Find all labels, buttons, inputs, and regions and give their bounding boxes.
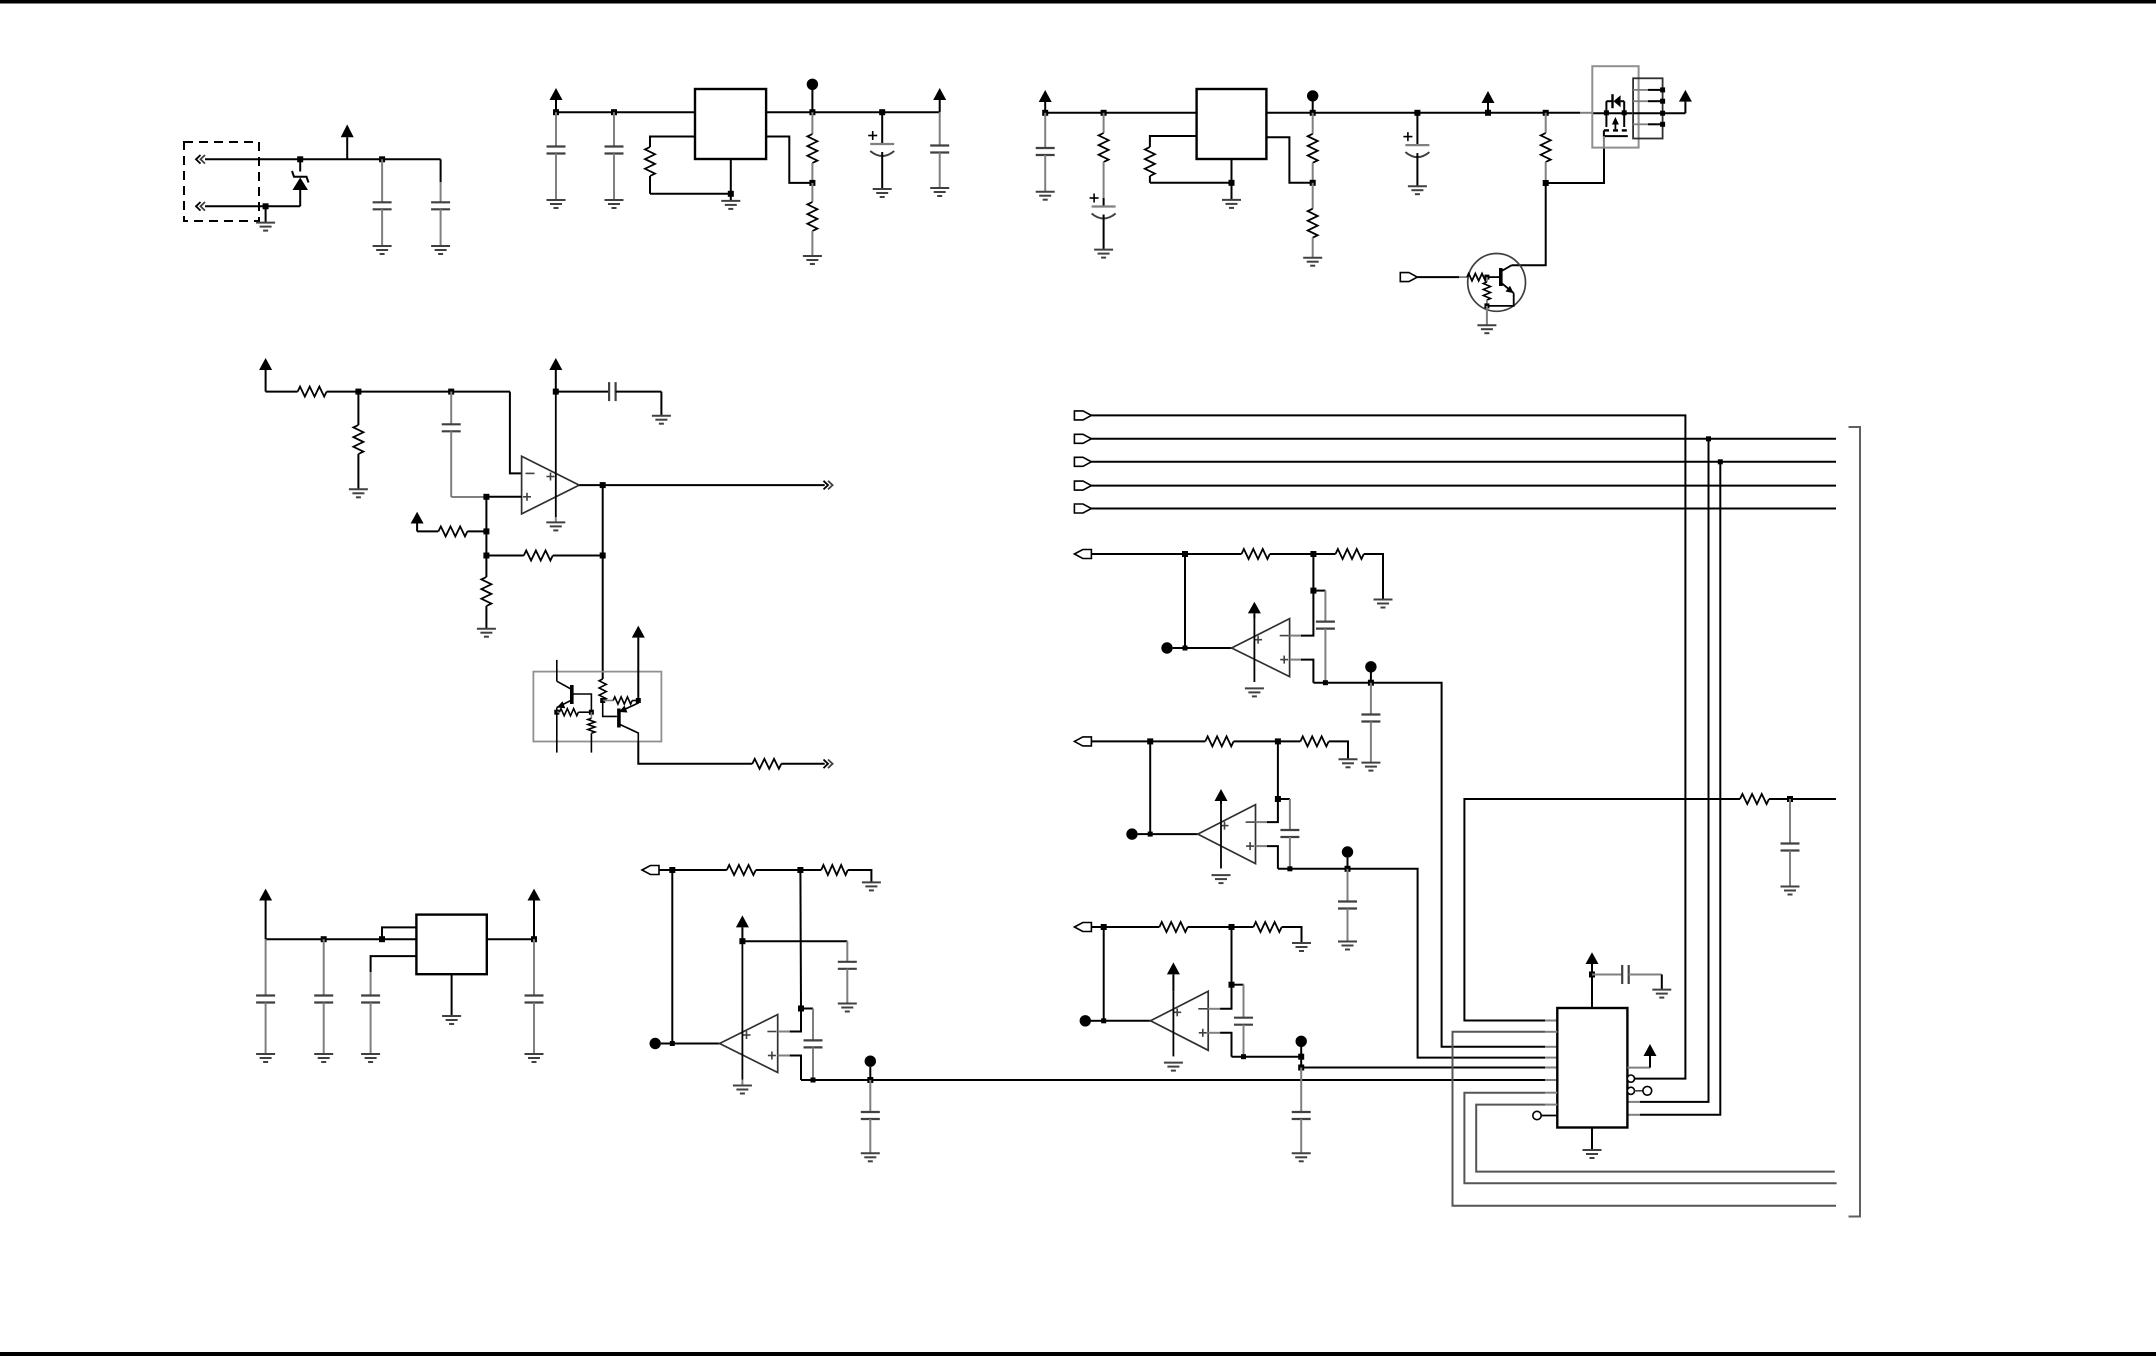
resistor R10 base-emitter	[1483, 277, 1490, 306]
wire U2 fb pin	[1266, 137, 1312, 183]
node dot N6	[1365, 661, 1376, 683]
power arrow P5	[1482, 91, 1495, 113]
junction	[1414, 110, 1420, 116]
regulator U4	[416, 915, 486, 975]
mosfet Q1 gate	[1604, 130, 1628, 147]
resistor R6	[1308, 113, 1318, 183]
wire	[1234, 740, 1278, 742]
ground	[1282, 927, 1311, 951]
pin circle U9 p9	[1533, 1111, 1558, 1119]
mosfet Q1 box	[1592, 66, 1638, 147]
ground U2	[1222, 159, 1241, 208]
wire pin8 loop	[1476, 1105, 1835, 1172]
resistor R12 to gnd	[353, 392, 363, 490]
junction	[600, 482, 606, 488]
capacitor C14	[361, 972, 380, 1054]
connector pin CTRL	[1400, 273, 1459, 282]
capacitor C24	[1292, 1068, 1311, 1154]
ground	[873, 189, 892, 197]
power arrow P4	[1039, 90, 1052, 113]
junction	[554, 710, 559, 715]
wire U5 minus	[778, 1009, 801, 1032]
ic U9 top pin	[1591, 975, 1593, 1009]
mosfet Q1 channel	[1604, 129, 1627, 131]
junction	[589, 710, 594, 715]
wire U8 minus	[1208, 985, 1231, 1009]
junction	[379, 156, 385, 162]
resistor R2	[807, 112, 817, 183]
pin stub Q3	[556, 712, 558, 752]
capacitor C19 feedback	[1313, 591, 1335, 686]
op-amp U7	[1198, 805, 1256, 864]
wire out2	[781, 763, 824, 765]
wire S3 output	[1232, 1056, 1302, 1058]
connector J2 pin row 1	[1633, 87, 1665, 92]
connector pin D2	[1074, 457, 1091, 466]
op-amp U3 minus label	[526, 472, 535, 474]
ground	[1303, 258, 1322, 266]
node dot N1	[807, 79, 818, 113]
op-amp U6 minus label	[1280, 635, 1289, 637]
junction	[1298, 1054, 1304, 1060]
resistor R14 feedback	[486, 551, 602, 561]
junction	[611, 109, 617, 115]
junction	[1182, 551, 1188, 557]
resistor R19	[588, 712, 595, 752]
connector pin S1	[1074, 550, 1185, 559]
capacitor C4	[605, 112, 624, 200]
junction	[483, 553, 489, 559]
wire U7 minus	[1256, 799, 1278, 822]
junction	[1183, 646, 1188, 651]
ground U8	[1164, 1063, 1183, 1071]
capacitor C10	[442, 392, 487, 497]
resistor R4	[1099, 113, 1109, 198]
capacitor C22	[1338, 869, 1357, 942]
power arrow P14	[1248, 602, 1261, 619]
node dot N2	[1307, 90, 1318, 113]
wire S2 input drop	[1149, 741, 1151, 834]
junction	[379, 936, 385, 942]
junction	[553, 109, 559, 115]
bus bracket	[1849, 427, 1861, 1217]
ground U1	[721, 159, 740, 209]
ground	[547, 200, 566, 208]
op-amp U7 supply	[1220, 805, 1222, 869]
op-amp U5 vplus label	[743, 1031, 751, 1039]
junction	[1589, 972, 1595, 978]
capacitor C18	[861, 1080, 880, 1153]
ground	[1036, 192, 1055, 200]
wire	[1270, 553, 1314, 555]
capacitor C11 supply	[556, 382, 662, 401]
resistor R5 feedback	[1145, 136, 1232, 183]
transistor Q2 collector	[1501, 265, 1512, 271]
junction	[739, 938, 745, 944]
op-amp U7 vplus label	[1221, 822, 1229, 830]
junction	[1310, 588, 1316, 594]
junction	[1275, 796, 1281, 802]
wire S3 to IC	[1298, 1057, 1557, 1071]
junction	[1484, 275, 1489, 280]
junction	[1229, 982, 1235, 988]
capacitor C3	[547, 112, 566, 200]
ground	[373, 246, 392, 254]
wire VIN top	[300, 158, 440, 160]
capacitor C26 bypass	[1592, 965, 1662, 984]
ground	[361, 1054, 380, 1062]
wire header to power	[1663, 112, 1686, 114]
ground	[349, 489, 368, 497]
op-amp U5	[720, 1015, 778, 1073]
ground Q2	[1477, 306, 1496, 333]
ground	[1329, 741, 1358, 767]
junction	[1101, 110, 1107, 116]
wire fb up S3	[1231, 927, 1233, 985]
pin circle U9 p10	[1627, 1075, 1634, 1082]
mosfet Q1 source	[1605, 101, 1607, 127]
junction	[798, 1006, 804, 1012]
resistor R18	[557, 709, 592, 716]
capacitor C15	[525, 939, 544, 1054]
connector J1 dashed outline	[184, 142, 259, 221]
junction	[297, 156, 303, 162]
wire pin2 loop	[1453, 1032, 1837, 1206]
node dot N3	[650, 1038, 673, 1049]
transistor Q3a collector stub	[556, 660, 558, 681]
power arrow P16	[1167, 962, 1180, 991]
ground	[1781, 887, 1800, 895]
power arrow P15	[1215, 789, 1228, 805]
op-amp U7 minus label	[1246, 821, 1255, 823]
wire plus input	[486, 496, 521, 498]
power arrow P17	[1586, 952, 1599, 974]
capacitor C13	[314, 939, 333, 1054]
capacitor C5 electrolytic	[868, 112, 894, 189]
connector J2 pin row 3	[1633, 111, 1665, 116]
output port chevron	[824, 481, 833, 490]
resistor R11	[298, 387, 327, 397]
wire	[756, 869, 801, 871]
wire to Q3	[602, 556, 604, 680]
capacitor C20	[1361, 683, 1380, 763]
junction	[1148, 832, 1153, 837]
junction	[1042, 110, 1048, 116]
junction	[797, 867, 803, 873]
junction	[1101, 1018, 1106, 1023]
connector pin AIN	[642, 866, 672, 875]
junction	[1787, 796, 1793, 802]
ground	[256, 206, 275, 230]
resistor R7	[1308, 183, 1318, 258]
power arrow P13	[736, 915, 749, 941]
op-amp U6 vplus label	[1254, 636, 1262, 644]
resistor R26	[1278, 736, 1329, 746]
ground	[1338, 942, 1357, 950]
resistor R25	[1150, 736, 1233, 746]
resistor R16	[599, 679, 606, 701]
junction	[1310, 110, 1316, 116]
op-amp U5 minus label	[767, 1031, 776, 1033]
wire U6 minus	[1290, 591, 1314, 636]
power arrow P7	[259, 358, 272, 392]
wire U1 fb pin	[766, 137, 812, 183]
power arrow P8	[549, 358, 562, 392]
transistor Q2 emitter	[1487, 283, 1514, 306]
connector pin S3	[1074, 923, 1103, 932]
wire	[327, 391, 510, 393]
op-amp U6 supply	[1253, 619, 1255, 682]
junction	[728, 191, 734, 197]
connector J1 pin 2 arrow	[196, 202, 266, 211]
junction	[636, 698, 641, 703]
node dot N8	[1342, 846, 1353, 869]
pin circle U9 p11	[1627, 1086, 1651, 1095]
zener D1	[292, 159, 309, 206]
wire U5 plus	[778, 1056, 801, 1081]
junction	[1275, 738, 1281, 744]
ground	[838, 1004, 857, 1012]
resistor R3	[807, 183, 817, 256]
junction	[1345, 866, 1351, 872]
wire	[1769, 798, 1836, 800]
op-amp U3 supply	[555, 392, 557, 517]
junction	[1229, 180, 1235, 186]
ground	[1408, 186, 1427, 194]
junction	[1485, 110, 1491, 116]
bus wire 1	[1091, 438, 1836, 440]
wire minus input	[510, 392, 522, 474]
capacitor C9 electrolytic	[1403, 113, 1429, 186]
wire reg1 input	[556, 111, 695, 113]
wire bus1 drop	[1627, 439, 1708, 1102]
ground U4	[442, 974, 461, 1024]
junction	[1147, 738, 1153, 744]
wire S2 output	[1278, 869, 1557, 1058]
junction	[1604, 110, 1627, 115]
junction	[1101, 924, 1107, 930]
ground	[256, 1054, 275, 1062]
wire vref	[266, 391, 298, 393]
capacitor C12	[256, 939, 275, 1054]
transistor Q3b collector	[619, 724, 638, 742]
output port chevron	[824, 760, 833, 769]
ground U6	[1245, 688, 1264, 696]
node dot N10	[1296, 1036, 1307, 1057]
ground	[1652, 975, 1671, 998]
wire feedback down	[602, 485, 604, 555]
wire reg1 output	[766, 111, 940, 113]
power arrow P10	[632, 626, 645, 701]
junction	[1543, 180, 1549, 186]
connector J2 pin row 2	[1633, 99, 1665, 104]
mosfet Q1 drain	[1623, 101, 1625, 127]
wire reg3 input	[266, 938, 417, 940]
mosfet Q1 body diode	[1606, 94, 1624, 108]
wire fb up S2	[1277, 741, 1279, 799]
op-amp U8 vplus label	[1173, 1008, 1181, 1016]
ground U7	[1212, 875, 1231, 883]
ground	[803, 256, 822, 264]
ground	[848, 870, 881, 890]
junction	[809, 180, 815, 186]
border bar bottom	[0, 1352, 2156, 1356]
junction	[1368, 680, 1374, 686]
wire Q2 collector	[1512, 183, 1546, 265]
connector pin S2	[1074, 737, 1150, 746]
bus wire 3	[1091, 485, 1836, 487]
wire U3 output	[579, 484, 825, 486]
capacitor C23 feedback	[1232, 985, 1254, 1059]
wire J1 pin2 to zener	[266, 205, 301, 207]
node dot N9	[1080, 1015, 1104, 1026]
power arrow P11	[259, 889, 272, 940]
wire to U8	[1104, 1020, 1151, 1022]
transistor pair Q3 box	[533, 672, 661, 742]
op-amp U8 minus label	[1198, 1008, 1207, 1010]
op-amp U8 supply	[1172, 991, 1174, 1056]
junction	[321, 936, 327, 942]
junction	[669, 867, 675, 873]
ground	[1364, 554, 1393, 608]
junction	[1718, 459, 1723, 464]
junction	[1706, 436, 1711, 441]
transistor Q3a collector	[557, 681, 572, 689]
wire reg2 input	[1045, 112, 1196, 114]
capacitor C17 feedback	[801, 1009, 823, 1083]
connector pin D4	[1074, 504, 1091, 513]
op-amp U6 plus label	[1280, 656, 1288, 664]
node dot N7	[1126, 828, 1150, 839]
wire U6 plus	[1290, 660, 1314, 683]
power arrow P6	[1679, 90, 1692, 113]
junction	[448, 389, 454, 395]
junction	[1229, 924, 1235, 930]
junction	[1484, 303, 1489, 308]
wire bus2 drop	[1627, 462, 1720, 1115]
power arrow P9	[411, 512, 424, 532]
capacitor C25	[1781, 799, 1800, 887]
connector pin D0	[1074, 411, 1091, 420]
mosfet Q1 substrate arrow	[1612, 117, 1619, 129]
capacitor C7	[1036, 113, 1055, 192]
transistor Q2 circle	[1468, 254, 1526, 312]
transistor Q3a base bar	[570, 685, 574, 704]
ground	[477, 629, 496, 637]
wire U4 byp pin	[371, 956, 417, 972]
resistor R1 feedback	[645, 137, 731, 194]
resistor R27	[1104, 922, 1188, 932]
wire U5 output line	[801, 1079, 1557, 1081]
capacitor C8 electrolytic	[1090, 194, 1116, 250]
resistor R17	[603, 697, 639, 704]
capacitor C16 supply	[742, 941, 856, 1003]
wire Q3a base	[572, 694, 592, 712]
wire U7 plus	[1256, 846, 1278, 869]
op-amp U3	[522, 456, 580, 514]
junction	[600, 553, 606, 559]
op-amp U8 plus label	[1199, 1029, 1207, 1037]
junction	[483, 494, 489, 500]
node dot N4	[865, 1056, 876, 1081]
power arrow P2	[550, 88, 563, 112]
bus wire 0	[1091, 415, 1685, 1078]
capacitor C2	[431, 159, 450, 246]
wire fb up S1	[1312, 554, 1314, 591]
transistor Q2 base bar	[1499, 268, 1503, 286]
op-amp U5 plus label	[768, 1052, 776, 1060]
resistor R20	[752, 759, 781, 769]
op-amp U5 supply	[741, 941, 743, 1079]
junction	[263, 203, 269, 209]
ic U9 right power pin	[1627, 1044, 1656, 1068]
resistor R28	[1232, 922, 1282, 932]
connector pin D3	[1074, 481, 1091, 490]
bus wire 2	[1091, 461, 1836, 463]
wire U8 plus	[1208, 1033, 1231, 1057]
ground U3	[546, 517, 565, 530]
ground	[930, 188, 949, 196]
ground	[431, 246, 450, 254]
junction	[531, 936, 537, 942]
junction	[670, 1041, 675, 1046]
wire U5 input	[671, 870, 673, 1044]
transistor Q3b base bar	[617, 709, 621, 728]
regulator U2	[1197, 89, 1267, 159]
resistor R23	[1185, 549, 1270, 559]
wire S1 output	[1313, 683, 1557, 1047]
resistor R24	[1313, 549, 1363, 559]
capacitor C1	[373, 159, 392, 246]
bus wire 4	[1091, 508, 1836, 510]
ground	[525, 1054, 544, 1062]
ground	[1361, 763, 1380, 771]
connector pin D1	[1074, 434, 1091, 443]
ground	[314, 1054, 333, 1062]
power arrow P3	[933, 88, 946, 112]
op-amp U8	[1151, 991, 1209, 1050]
power arrow P12	[528, 889, 541, 940]
ground	[652, 392, 671, 424]
wire pin1 loop	[1464, 799, 1740, 1021]
resistor R9 base	[1459, 274, 1501, 281]
wire S1 input drop	[1184, 554, 1186, 648]
junction	[483, 528, 489, 534]
junction	[879, 109, 885, 115]
node dot N5	[1161, 642, 1185, 653]
ground	[1094, 250, 1113, 258]
connector J2 pin row 4	[1633, 122, 1665, 127]
wire to U5 output	[672, 1043, 719, 1045]
ic U9	[1557, 1008, 1627, 1128]
op-amp U3 vplus label	[547, 473, 555, 481]
ground	[605, 200, 624, 208]
junction	[867, 1077, 873, 1083]
op-amp U3 plus label	[523, 493, 531, 501]
junction	[600, 698, 605, 703]
resistor R22	[800, 865, 847, 875]
resistor R21	[672, 865, 756, 875]
resistor R15 to gnd	[481, 556, 491, 629]
resistor R29	[1740, 794, 1769, 804]
wire	[1188, 926, 1232, 928]
resistor R8 pullup	[1541, 113, 1551, 183]
border bar top	[0, 0, 2156, 4]
resistor R13 offset	[417, 526, 486, 536]
wire to U6	[1185, 647, 1232, 649]
ground	[1292, 1153, 1311, 1161]
regulator U1	[695, 89, 766, 159]
